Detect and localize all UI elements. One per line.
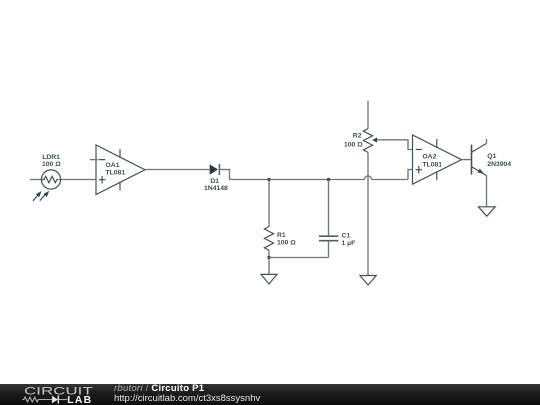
svg-text:100 Ω: 100 Ω — [42, 161, 61, 168]
svg-text:C1: C1 — [342, 232, 351, 239]
wire: C1 bottom lead — [328, 241, 330, 258]
potentiometer R2 — [363, 129, 377, 153]
wire: OA2 non-inverting input branch from main net — [408, 170, 413, 180]
svg-text:Q1: Q1 — [487, 153, 496, 160]
svg-text:D1: D1 — [210, 178, 219, 185]
op-amp OA2 body — [413, 135, 462, 184]
ground symbol under R2 — [360, 276, 376, 286]
svg-text:TL081: TL081 — [106, 170, 126, 177]
svg-text:1 µF: 1 µF — [342, 240, 356, 247]
OA2 positive supply pin tick — [436, 139, 438, 148]
OA2 minus sign — [416, 149, 422, 151]
wire: Q1 emitter to ground — [486, 176, 488, 207]
OA1 minus sign — [99, 159, 105, 161]
wire: ground stem under R1 — [268, 258, 270, 275]
svg-text:R1: R1 — [277, 232, 286, 239]
svg-text:OA1: OA1 — [106, 162, 120, 169]
transistor Q1 — [472, 143, 487, 175]
wire: C1 top lead — [328, 180, 330, 237]
OA2 negative supply pin tick — [436, 171, 438, 180]
ground symbol under R1 — [261, 274, 277, 284]
svg-text:LAB: LAB — [67, 395, 92, 405]
junction node at C1 top — [327, 178, 330, 181]
wire: main net left section — [230, 179, 365, 181]
footer bar — [0, 384, 540, 405]
wire: R1 bottom lead — [268, 250, 270, 257]
wire: main net right section to OA2 — [372, 179, 408, 181]
OA2 plus sign — [416, 166, 422, 174]
wire: R2 bottom lead to ground — [367, 152, 369, 275]
svg-text:100 Ω: 100 Ω — [344, 141, 363, 148]
wire: Q1 collector open stub — [486, 139, 488, 143]
svg-text:R2: R2 — [353, 132, 362, 139]
credit text — [114, 384, 260, 403]
diode D1 — [210, 164, 220, 175]
wire: OA2 output to Q1 base — [462, 159, 472, 161]
svg-text:OA2: OA2 — [422, 154, 436, 161]
wire: OA1 output to D1 anode — [145, 169, 210, 171]
wire: R2 wiper to OA2 inverting input — [377, 140, 413, 150]
op-amp OA1 body — [96, 145, 145, 195]
ground symbol under Q1 — [478, 207, 495, 216]
wire hop over R2 branch — [364, 176, 371, 180]
photoresistor LDR1 — [33, 170, 61, 201]
svg-text:100 Ω: 100 Ω — [277, 240, 296, 247]
CircuitLab logo — [20, 384, 95, 405]
resistor R1 — [264, 227, 273, 251]
wire: R1 top lead — [268, 180, 270, 227]
OA1 plus sign — [99, 176, 105, 184]
svg-text:1N4148: 1N4148 — [204, 185, 228, 192]
junction node at D1/R1 — [267, 178, 270, 181]
svg-text:2N3904: 2N3904 — [487, 161, 511, 168]
OA1 inverting input stub — [90, 159, 98, 161]
OA1 positive supply pin tick — [119, 149, 121, 158]
svg-text:TL081: TL081 — [422, 161, 442, 168]
OA1 negative supply pin tick — [119, 182, 121, 191]
wire: bottom net R1 to C1 — [269, 257, 329, 259]
wire: left open lead of LDR1 — [30, 179, 43, 181]
wire: step down to main net — [229, 169, 231, 180]
wire: LDR1 to OA1 non-inverting input — [59, 179, 96, 181]
wire: R2 top open stub — [367, 101, 369, 129]
capacitor C1 — [319, 236, 338, 241]
wire: D1 cathode lead — [219, 169, 229, 171]
junction node at R1 bottom — [267, 256, 270, 259]
